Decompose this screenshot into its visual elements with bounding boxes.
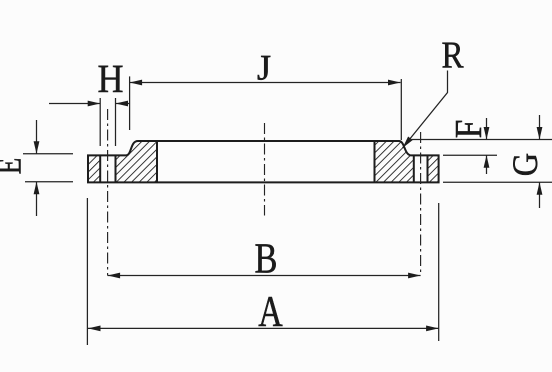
hatch fill right rim section xyxy=(428,155,439,182)
hatch fill left hub section xyxy=(116,141,158,182)
hatch fill left rim section xyxy=(88,155,100,182)
leader R xyxy=(403,71,448,149)
dim J extension lines xyxy=(129,76,131,130)
svg-text:J: J xyxy=(257,47,271,87)
dim F extension line raised face top xyxy=(409,139,552,141)
bore edge left xyxy=(156,141,158,182)
dim H extension lines xyxy=(99,98,101,146)
bolt hole left edge lines xyxy=(99,155,101,182)
svg-text:H: H xyxy=(97,57,123,101)
svg-text:A: A xyxy=(258,288,283,336)
bolt hole right edge lines xyxy=(413,155,415,182)
dim E line and arrows xyxy=(36,120,38,154)
svg-text:E: E xyxy=(0,158,28,175)
bore edge right xyxy=(374,141,376,182)
dim G extension line bottom xyxy=(443,181,552,183)
dim H line and arrows xyxy=(49,103,100,105)
dim A line and arrows xyxy=(88,327,439,329)
hatch fill right hub section xyxy=(375,141,414,182)
flange outline xyxy=(88,141,439,182)
svg-text:G: G xyxy=(505,153,545,176)
dim E extension lines xyxy=(23,153,73,155)
dim J line and arrows xyxy=(130,82,401,84)
svg-text:R: R xyxy=(441,33,463,76)
dim G line and arrows xyxy=(539,115,541,140)
dim A extension lines xyxy=(86,198,88,345)
svg-text:B: B xyxy=(255,235,278,283)
dim F extension line rim top xyxy=(443,154,497,156)
dim F line and arrows xyxy=(486,118,488,140)
dim B line and arrows xyxy=(108,275,421,277)
svg-text:F: F xyxy=(447,120,489,139)
centerline right bolt xyxy=(420,132,422,276)
centerline main xyxy=(264,123,266,216)
centerline left bolt xyxy=(107,109,109,276)
